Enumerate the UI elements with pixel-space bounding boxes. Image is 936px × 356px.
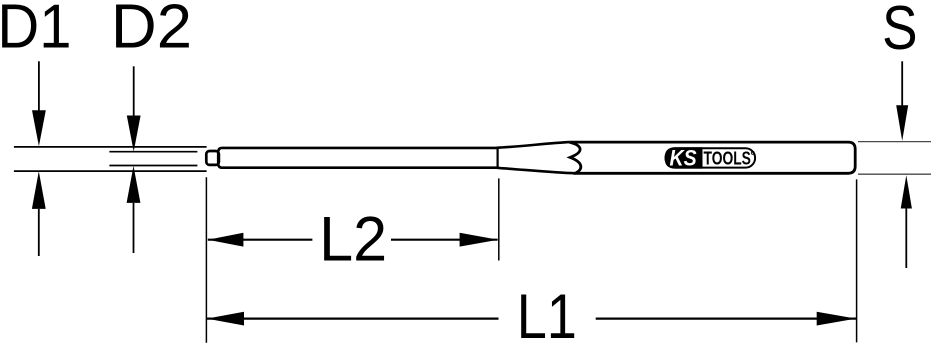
- pin inner top line: [109, 151, 197, 153]
- punch tip: [206, 151, 219, 165]
- pin inner bottom line: [109, 165, 197, 167]
- svg-text:L1: L1: [517, 282, 577, 352]
- dimension extension line L1 right: [856, 179, 858, 342]
- svg-text:KS: KS: [670, 146, 697, 171]
- dimension extension line L2 right: [498, 178, 500, 260]
- flare top edge: [498, 142, 570, 148]
- S extension line top: [858, 141, 931, 143]
- svg-text:D1: D1: [0, 0, 71, 61]
- svg-text:D2: D2: [111, 0, 192, 61]
- L1 arrow left: [207, 312, 244, 326]
- pin outer top line: [14, 146, 207, 148]
- svg-text:L2: L2: [319, 205, 387, 275]
- arrow S up: [901, 175, 912, 268]
- L2 dimension line right segment: [391, 239, 498, 241]
- KS TOOLS logo capsule: [666, 148, 756, 167]
- arrow D2 up: [127, 166, 141, 253]
- shaft divider: [497, 147, 499, 168]
- arrow D1 up: [32, 171, 46, 256]
- dimension extension line left: [205, 177, 207, 343]
- L1 dimension line left segment: [207, 318, 499, 320]
- L1 dimension line right segment: [596, 318, 856, 320]
- shaft body: [218, 148, 498, 168]
- arrow D2 down: [127, 66, 141, 151]
- L2 arrow right: [460, 233, 499, 247]
- wavy grip edge: [569, 142, 581, 173]
- L1 arrow right: [817, 312, 856, 326]
- logo black lobe: [665, 147, 703, 168]
- arrow S down: [896, 61, 908, 141]
- L2 arrow left: [208, 233, 244, 247]
- handle outline: [569, 142, 855, 173]
- pin outer bottom line: [14, 170, 207, 172]
- arrow D1 down: [32, 61, 46, 146]
- svg-text:TOOLS: TOOLS: [704, 149, 751, 169]
- svg-text:S: S: [882, 0, 917, 63]
- L2 dimension line left segment: [208, 239, 313, 241]
- logo registered mark: [751, 151, 754, 154]
- flare bottom edge: [498, 168, 576, 173]
- S extension line bottom: [858, 173, 931, 175]
